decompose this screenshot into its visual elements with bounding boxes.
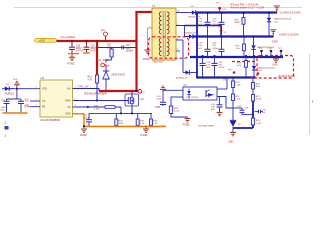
capacitor C26 [200,57,212,78]
diode D11 lower rectifier [176,40,197,80]
resistor R17 [107,44,113,60]
wire orange VDD caps ground [3,112,28,114]
resistor R16 [88,75,99,83]
svg-text:5: 5 [177,48,179,50]
node junction gate x97 [96,100,98,102]
svg-text:3: 3 [149,40,151,42]
sheet border right line [309,54,311,135]
svg-text:Reverse parallel to C27 --> 51: Reverse parallel to C27 --> 510R [231,7,265,10]
ground PGND right on bus [141,126,150,137]
svg-text:R25 and R29 --> 2K2/A13K: R25 and R29 --> 2K2/A13K [231,3,259,6]
svg-text:R28: R28 [256,120,261,122]
svg-text:CTRL_HV: CTRL_HV [78,86,89,89]
ground PGND under C16 [67,54,75,66]
wire HV bus [57,40,137,42]
wire 5V rail [193,35,274,37]
wire opto cathode [171,96,183,98]
svg-text:1.10k: 1.10k [94,108,100,110]
svg-text:R22: R22 [174,108,179,110]
node junction drain riser [136,90,138,92]
wire D4 to VDD pin [9,88,40,90]
svg-text:50V: 50V [211,109,215,111]
svg-text:R23: R23 [235,82,240,84]
svg-text:DRV: DRV [65,99,70,102]
svg-text:B340B-13-F: B340B-13-F [176,78,188,80]
svg-text:1000pF: 1000pF [126,50,134,52]
capacitor C24 feedback [157,90,167,106]
node junction sense CS [120,113,122,115]
svg-text:R18: R18 [119,120,124,122]
resistor R26 [252,78,261,90]
svg-text:7.15k: 7.15k [235,99,241,101]
capacitor C25 [198,37,210,58]
resistor R20 [150,113,159,126]
svg-text:TP7: TP7 [278,48,281,50]
capacitor C32 [233,106,253,115]
svg-text:3.0k: 3.0k [237,65,242,67]
svg-text:C24: C24 [157,96,162,98]
diode D7 [176,26,196,39]
ground PGND transformer [143,48,151,61]
svg-text:10.0k: 10.0k [174,111,180,113]
test point TP6 [268,48,272,57]
svg-text:95.0: 95.0 [256,86,261,88]
node junction pgnd dot [83,125,85,127]
svg-text:4.7k: 4.7k [88,79,93,81]
resistor R18 [115,113,124,126]
svg-text:50V: 50V [198,48,202,50]
svg-text:U2: U2 [41,76,45,80]
highlight dashed stub bottom [251,77,258,79]
svg-text:10uF: 10uF [1,107,7,109]
ground GND wing secondary [272,57,279,67]
diode D5 US1M [103,66,126,92]
node junction VDD [16,88,18,90]
svg-text:47.4k: 47.4k [256,99,262,101]
svg-text:UFB: UFB [155,106,160,109]
highlight dashed box output [257,56,294,79]
diode D10 zener [252,57,276,78]
resistor R22 [169,97,180,114]
svg-text:50V: 50V [206,67,210,69]
resistor R19b [136,113,145,126]
wire gate [73,100,129,102]
svg-text:UFB: UFB [24,103,29,107]
pin numbers U2 [36,87,76,114]
svg-text:2: 2 [5,121,7,125]
wire thick feedback bottom [233,127,253,129]
svg-text:R26: R26 [256,83,261,85]
resistor R24b [232,88,242,121]
svg-text:C33: C33 [262,109,267,111]
svg-text:1.00: 1.00 [153,123,158,125]
svg-text:HV: HV [101,28,105,32]
wire lower secondary rail [197,76,256,78]
capacitor C21 [83,113,92,126]
svg-text:VDD: VDD [13,79,18,81]
svg-text:VS: VS [42,100,46,103]
svg-text:14V: 14V [274,21,278,23]
node junction riser [252,114,254,116]
svg-text:470uF: 470uF [218,67,225,69]
test point TP1 12V [216,3,227,13]
svg-text:2: 2 [5,134,7,138]
wire orange from U2 GND pin [73,114,85,127]
svg-text:TP4: TP4 [228,69,233,71]
test point TP5 [259,48,263,57]
capacitor C28 [212,37,224,58]
wire opto emitter [217,97,233,109]
wire opto collector [217,78,227,90]
svg-text:R19: R19 [140,120,145,122]
wire CS drop [120,107,122,113]
svg-text:470uF: 470uF [212,24,219,26]
svg-text:1nF: 1nF [262,112,266,114]
wire port to diode [104,64,106,65]
wire transformer pin8 to rail2 [185,26,222,37]
wire orange C20 bottom [83,52,90,54]
capacitor C33 [255,109,267,114]
wire VDD cap branch right [17,98,21,100]
svg-text:6: 6 [75,99,76,101]
wire FB pin [24,103,40,107]
svg-text:MUR110: MUR110 [5,94,15,96]
svg-text:R20: R20 [153,120,158,122]
svg-text:SMBZ47D3-E3-08: SMBZ47D3-E3-08 [258,67,276,69]
svg-text:0.47uF: 0.47uF [76,50,84,53]
wire drain line [99,90,138,92]
svg-text:CS: CS [67,106,71,109]
ground GND C31 [217,112,223,115]
wire transformer pin2 to PGND [148,28,153,48]
svg-text:1.50k: 1.50k [235,85,241,87]
ground PGND opto [183,117,191,127]
wire bus riser to transformer [135,11,137,91]
wire snubber top rail [98,47,136,49]
svg-text:VS: VS [223,78,227,81]
svg-text:1uF: 1uF [245,108,249,110]
svg-text:100k: 100k [119,123,125,125]
svg-text:TP2: TP2 [218,27,221,29]
capacitor C31 [211,97,223,113]
transistor Q1 [125,91,144,106]
svg-text:Q2: Q2 [141,98,145,101]
ground PGND left on bus [80,129,87,137]
capacitor C27 [198,13,210,37]
svg-text:D4: D4 [6,84,10,86]
net label +VDC (yellow pill) [35,38,57,42]
resistor R29 [237,57,248,78]
ground wing above opto anode [160,86,166,90]
optocoupler U3 [183,84,217,100]
pin stub transformer right y51 [176,50,180,52]
wire R17 to port [106,60,112,63]
svg-text:R27: R27 [256,96,261,98]
svg-text:+VDC: +VDC [39,40,46,43]
ground GND wing rail1 end [274,6,280,13]
svg-text:PGND: PGND [80,134,87,137]
power port VDD [13,79,20,89]
wire thick feedback riser [252,101,254,128]
diode D8 zener [267,13,292,37]
svg-text:4: 4 [149,53,151,55]
wire orange C16 bottom [68,53,79,55]
highlight dashed connector [232,61,257,63]
svg-text:TP1: TP1 [216,3,219,5]
svg-text:FB: FB [42,106,45,109]
svg-text:50V: 50V [1,110,5,112]
svg-text:GND: GND [65,113,71,116]
port circle Snb [101,63,111,67]
svg-text:1.00: 1.00 [140,123,145,125]
wire sense rail [89,112,152,114]
power port HV [101,28,108,41]
svg-text:R15: R15 [88,77,93,79]
sheet border top line [14,7,302,9]
wire secondary ground rail [190,56,283,58]
svg-text:D: D [143,91,145,93]
ground GND TL431 [228,132,236,143]
svg-text:+5VDC/0.9A/5%: +5VDC/0.9A/5% [278,75,296,78]
port circle drain [138,90,145,94]
svg-text:470uF: 470uF [212,48,219,50]
svg-text:TP5: TP5 [259,48,262,50]
node junction bus x97 [96,40,98,42]
transformer pin numbers [149,10,180,55]
capacitor C24 [212,13,224,37]
capacitor C17 [18,99,31,113]
highlight dashed box transformer [149,37,189,58]
node junction bus x72 [71,40,73,42]
svg-text:GND: GND [228,141,234,144]
svg-text:3.0k: 3.0k [236,48,241,50]
node junction sense source [131,113,133,115]
svg-text:GND: GND [272,40,278,44]
svg-text:5.6V: 5.6V [258,70,263,72]
transformer 12V secondary winding [167,12,169,34]
capacitor C20 [84,41,97,53]
resistor R27 [252,89,263,101]
svg-text:2PD7A1A2P70ATM4P: 2PD7A1A2P70ATM4P [84,93,107,96]
wire R22 to PGND [171,114,188,118]
op-amp U2 controller IC body [40,76,73,122]
wire CS pin [73,106,122,108]
node junction bus x86.5 [85,40,87,42]
svg-text:GND: GND [272,65,277,67]
wire secondary riser [196,13,198,78]
svg-text:VDD: VDD [42,88,47,91]
node junction rail squares [196,12,270,78]
svg-text:SMBZ47D4-E3-08: SMBZ47D4-E3-08 [274,19,292,21]
svg-text:750817020: 750817020 [153,61,165,63]
svg-text:Vin rectified: Vin rectified [61,35,76,39]
transformer 5V secondary winding [167,38,169,56]
svg-text:A13K: A13K [235,21,241,24]
diode D6 [176,6,201,19]
wire MOSFET source [131,104,133,113]
svg-text:47uF: 47uF [90,50,96,53]
capacitor C18 [1,99,10,113]
svg-text:PGND: PGND [143,59,150,61]
svg-text:TCET1103G: TCET1103G [186,97,198,99]
wire snubber left drop [96,41,98,75]
test point TP8 [257,72,260,75]
resistor R24a [235,13,246,37]
svg-text:TLV431ACDBZR: TLV431ACDBZR [198,124,215,127]
diode D9 zener [251,37,275,58]
svg-text:12V: 12V [222,9,226,11]
svg-text:UCC28700DBVR: UCC28700DBVR [40,118,60,122]
wire VDD cap drop [7,89,17,99]
test point TP7 [278,48,282,57]
svg-text:7.15k: 7.15k [256,123,262,125]
svg-text:47uF: 47uF [157,99,163,101]
svg-text:5V: 5V [224,32,227,34]
node junction CS [87,106,89,108]
transformer aux winding [159,38,161,56]
capacitor C19 [122,45,134,52]
transformer primary winding [159,12,161,34]
svg-text:HV: HV [67,87,71,90]
svg-text:PGND: PGND [183,124,190,127]
svg-text:US1M-E3/61T: US1M-E3/61T [111,74,126,76]
resistor R28 [251,118,262,125]
shunt regulator U5 TL431 [230,120,242,132]
wire VS pin [25,98,41,102]
svg-text:B340B-13-F: B340B-13-F [184,32,196,34]
test point TP4 [228,69,236,73]
svg-text:+12VDC/0.3A/10%: +12VDC/0.3A/10% [280,11,302,14]
resistor R19 series CS [94,106,115,111]
transformer T1 body [152,4,176,60]
svg-text:U5: U5 [238,124,242,126]
test point TP2 5V [218,27,227,34]
port connector blue [5,126,9,130]
svg-text:VS: VS [25,98,29,102]
svg-text:50V: 50V [198,24,202,26]
wire orange primary ground bus [84,125,166,127]
capacitor C30 [212,57,226,78]
svg-text:TP6: TP6 [268,48,271,50]
svg-text:PGND: PGND [141,134,148,137]
capacitor C16 [69,41,84,54]
svg-text:+5VDC/1.0A/10%: +5VDC/1.0A/10% [279,34,299,37]
svg-text:R24: R24 [235,96,240,98]
ground GND wing rail2 end [270,30,276,37]
wire opto anode [163,89,183,91]
svg-text:PGND: PGND [67,63,74,66]
diode D4 [2,84,14,95]
svg-text:4: 4 [312,100,314,104]
resistor R25 [236,37,246,58]
wire bus top segment [135,11,152,13]
pin stub U2 HV [73,89,100,92]
wire 12V rail [196,11,277,13]
wire R16 to gate [96,83,98,101]
resistor R23 [232,78,242,88]
